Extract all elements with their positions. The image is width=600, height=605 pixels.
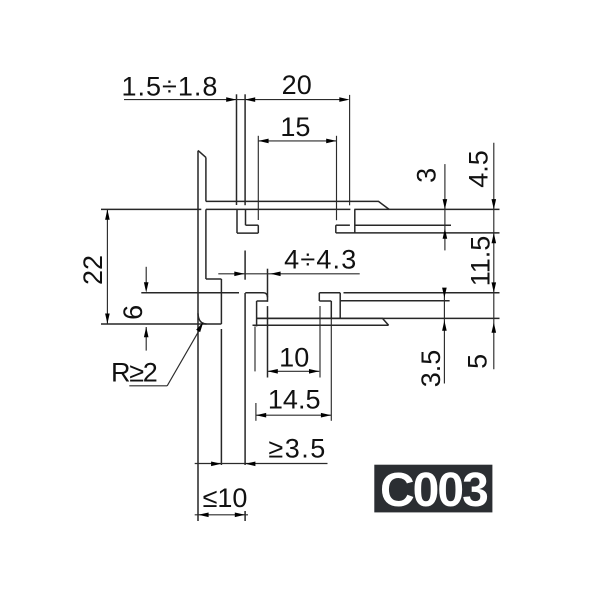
top wall right line: [244, 94, 246, 205]
left wall inner edge lower: [205, 209, 207, 279]
hook3 leg left edge: [330, 301, 332, 318]
part number box: [374, 465, 492, 513]
svg-text:4÷4.3: 4÷4.3: [284, 245, 357, 275]
hook3 leg right edge: [339, 293, 341, 319]
right flange left edge: [354, 209, 356, 233]
hook2 arm bottom and ext: [336, 232, 500, 234]
right flange bottom: [355, 224, 451, 226]
slot left wall lower: [220, 329, 222, 465]
arrow 3 top: [443, 199, 448, 209]
left wall top chamfer: [198, 150, 206, 157]
14.5 right extension: [330, 318, 332, 420]
arrow ge3.5 right: [245, 462, 255, 467]
lower shelf top with right chamfer: [257, 318, 389, 325]
web bottom left of wall: [101, 208, 201, 210]
arrow at 233 up: [492, 233, 497, 243]
lower plate ridge line: [340, 300, 449, 302]
hook3 foot bottom: [319, 300, 331, 302]
svg-text:3.5: 3.5: [416, 350, 446, 388]
dim 15 line: [258, 140, 336, 142]
dim 3.5 line: [443, 288, 445, 384]
svg-text:15: 15: [280, 112, 310, 142]
svg-text:≥3.5: ≥3.5: [268, 434, 326, 464]
svg-text:22: 22: [78, 255, 108, 285]
R2 leader arrowhead: [196, 321, 205, 332]
hook3 foot left edge: [318, 293, 320, 301]
lower left vertical edge upper: [267, 269, 269, 302]
arrow 22 top: [105, 209, 110, 219]
stem right edge: [244, 293, 246, 465]
dim 10 line: [268, 370, 320, 372]
dim 22 line: [106, 209, 108, 323]
svg-text:11.5: 11.5: [466, 236, 496, 287]
dim 1.5-1.8 line: [124, 99, 345, 101]
slot left wall upper: [220, 279, 222, 324]
svg-text:C003: C003: [380, 464, 487, 517]
hook1 right edge: [257, 225, 259, 233]
tick below hook1: [244, 251, 246, 280]
hook2 foot left edge: [335, 225, 337, 233]
dim 4-4.3 line: [218, 273, 359, 275]
arrow 22 bottom: [105, 314, 110, 324]
hook2 foot top: [336, 224, 350, 226]
lower left vertical edge lower ext: [267, 306, 269, 377]
svg-text:R≥2: R≥2: [111, 358, 157, 388]
left wall outer edge and stem left edge: [197, 151, 199, 521]
arrow 4.5 top: [492, 199, 497, 209]
arrow 4-4.3 left: [234, 272, 244, 277]
svg-text:6: 6: [118, 305, 148, 320]
arrow 10 right: [309, 369, 319, 374]
arrow le10 left: [198, 513, 208, 518]
arrow at 292.7 down: [492, 282, 497, 292]
svg-text:3: 3: [412, 168, 442, 183]
arrow 3.5 bottom: [442, 321, 447, 331]
step below wall inner: [206, 278, 222, 280]
svg-text:≤10: ≤10: [203, 483, 248, 513]
svg-text:10: 10: [279, 343, 309, 373]
arrow 3.5 top: [442, 288, 447, 298]
R2 leader underline: [129, 385, 167, 387]
lower left step: [257, 300, 268, 302]
hook1 notch left wall: [245, 209, 247, 225]
lower left foot top right part with corner: [245, 293, 267, 298]
dim 6 upper segment: [145, 267, 147, 286]
hook1 left edge: [236, 209, 238, 233]
dim 4.5-11.5-5 line: [493, 143, 495, 369]
lower plate top and ext: [344, 292, 500, 294]
hook1 pocket floor: [246, 224, 259, 226]
arrow 4-4.3 right: [270, 272, 280, 277]
arrow 15 right: [326, 139, 336, 144]
stem right ext stub: [244, 511, 246, 521]
lower shelf bottom: [253, 324, 389, 326]
arrow ge3.5 left: [211, 462, 221, 467]
right flange top and ext: [354, 208, 499, 210]
top wall left line: [236, 94, 238, 205]
svg-text:1.5÷1.8: 1.5÷1.8: [122, 72, 219, 102]
14.5 left extension upper: [254, 326, 256, 371]
10 right extension: [319, 306, 321, 378]
arrow le10 right: [235, 513, 245, 518]
15 left extension: [257, 136, 259, 220]
arrow 6 bottom: [144, 327, 149, 337]
svg-text:4.5: 4.5: [464, 150, 494, 188]
lower left foot top with 6 ext: [141, 292, 239, 294]
15 right extension: [336, 136, 338, 220]
svg-text:20: 20: [282, 70, 312, 100]
dim le10 line: [195, 514, 248, 516]
20 right extension: [349, 95, 351, 205]
arrow at wall right pointing left: [245, 97, 255, 102]
arrow 15 left: [258, 139, 268, 144]
arrow 3 bottom: [443, 228, 448, 238]
arrow at wall left: [226, 97, 236, 102]
arrow 20 right: [339, 97, 349, 102]
lower left leg edge: [256, 301, 258, 326]
web bottom: [206, 208, 351, 210]
web top with right chamfer: [206, 201, 389, 209]
svg-text:14.5: 14.5: [268, 385, 321, 415]
arrow 10 left: [268, 369, 278, 374]
arrow 6 top: [144, 282, 149, 292]
dim 6 lower segment: [145, 327, 147, 351]
arrow at 318.4 up: [492, 323, 497, 333]
svg-text:5: 5: [463, 354, 493, 369]
hook1 bottom: [237, 232, 258, 234]
arrow 14.5 right: [321, 413, 331, 418]
R2 leader diagonal: [167, 330, 199, 386]
dim 14.5 line: [256, 414, 331, 416]
hook3 foot top: [319, 292, 340, 294]
fillet R2 wall to base: [198, 313, 207, 324]
dim 3 line: [444, 164, 446, 250]
left wall inner edge upper: [205, 157, 207, 201]
arrow 14.5 left: [256, 413, 266, 418]
14.5 left extension lower: [255, 403, 257, 421]
lower plate bottom and ext: [257, 317, 500, 319]
dim ge3.5 line: [195, 463, 328, 465]
base line with 22 extension: [101, 323, 221, 325]
